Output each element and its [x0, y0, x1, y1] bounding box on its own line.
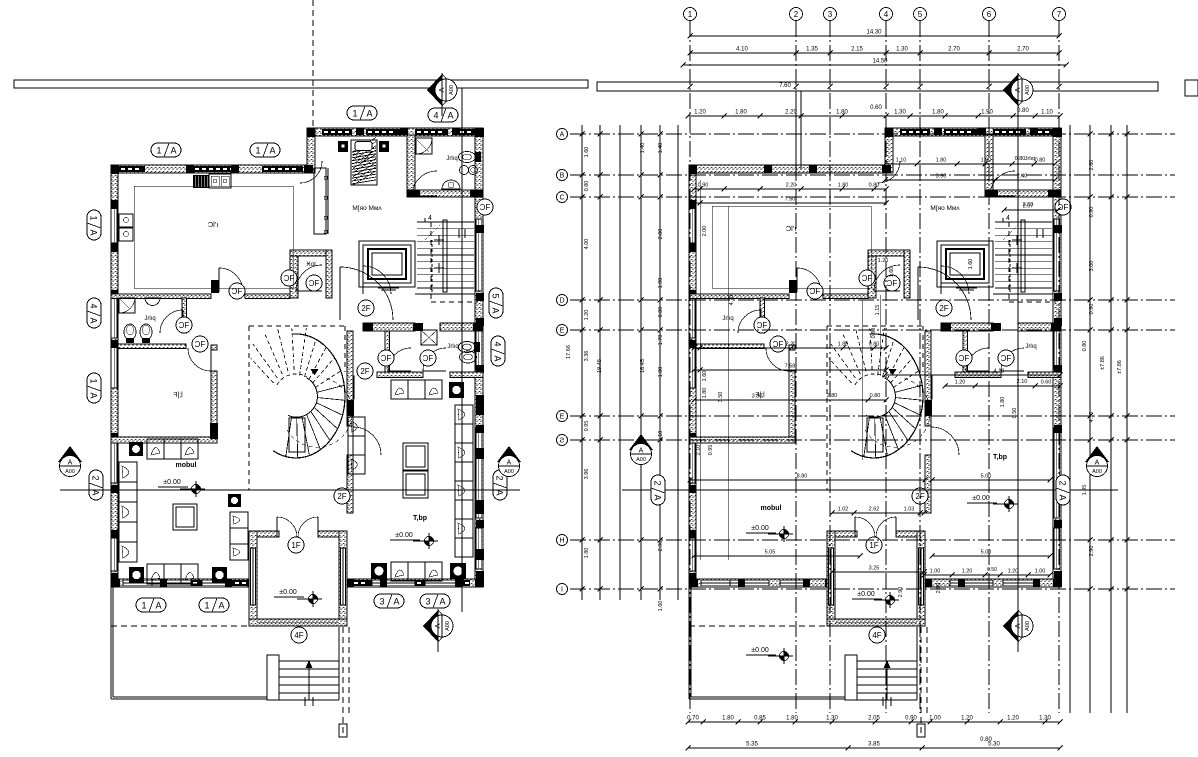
svg-text:Jrlıq: Jrlıq: [1025, 344, 1036, 350]
staircase up arrow 4: [1003, 221, 1014, 223]
svg-text:1.60: 1.60: [658, 601, 664, 612]
svg-text:3.96: 3.96: [584, 469, 590, 480]
svg-text:1: 1: [255, 145, 260, 155]
svg-text:Ӿol: Ӿol: [306, 261, 316, 268]
bath lower-left wc pair: [124, 324, 136, 340]
door lower-left bath: [160, 310, 183, 333]
site boundary bar left: [14, 80, 588, 88]
svg-text:4.10: 4.10: [1089, 412, 1095, 423]
svg-text:1: 1: [204, 600, 209, 610]
svg-text:4F: 4F: [294, 631, 303, 640]
exterior left wall: [111, 165, 118, 586]
terrace dashed drop line: [920, 627, 922, 737]
grid row E: [570, 415, 1175, 417]
svg-text:7: 7: [1057, 10, 1062, 19]
exterior wall top-right block: [311, 128, 482, 136]
svg-text:A: A: [218, 600, 224, 610]
door mid bath 2: [423, 348, 446, 371]
svg-text:mobul: mobul: [761, 505, 782, 512]
svg-text:1: 1: [352, 108, 357, 118]
svg-text:1.80: 1.80: [838, 342, 849, 348]
section line horizontal right plan: [622, 489, 1118, 491]
svg-text:5.05: 5.05: [765, 550, 776, 556]
svg-text:A: A: [393, 596, 399, 606]
svg-text:1.30: 1.30: [826, 716, 838, 722]
svg-text:1.10: 1.10: [896, 158, 907, 164]
svg-text:A: A: [493, 355, 503, 361]
door top-right bath: [412, 171, 437, 196]
svg-text:A: A: [447, 110, 453, 120]
svg-text:0.70: 0.70: [687, 716, 699, 722]
svg-text:2.20: 2.20: [786, 183, 797, 189]
svg-text:Jrlıq: Jrlıq: [446, 156, 457, 162]
svg-text:2.70: 2.70: [948, 47, 960, 53]
svg-text:ƆF: ƆF: [195, 340, 206, 349]
porch wall right: [339, 531, 347, 626]
svg-text:1.40: 1.40: [640, 143, 646, 154]
svg-text:H: H: [559, 538, 564, 545]
svg-text:5.35: 5.35: [746, 742, 758, 748]
svg-text:A: A: [560, 132, 565, 139]
svg-text:0.80: 0.80: [1082, 341, 1088, 352]
svg-text:2.60: 2.60: [1023, 202, 1034, 208]
living room sofa right column: [230, 512, 248, 560]
svg-text:1.80: 1.80: [722, 716, 734, 722]
svg-text:2: 2: [794, 10, 799, 19]
porch window: [855, 620, 896, 625]
grid line 4: [885, 21, 887, 713]
svg-text:±7.86: ±7.86: [1100, 356, 1106, 370]
svg-text:ƆF: ƆF: [757, 321, 768, 330]
top dimension segments: [690, 52, 1059, 54]
porch bottom wall with window: [827, 619, 925, 626]
section marker bottom left plan: [423, 610, 438, 642]
svg-text:±0.00: ±0.00: [395, 532, 413, 539]
door mid bath 1: [388, 348, 411, 371]
outside stair up arrow: [886, 662, 888, 700]
section marker bottom right plan: [1003, 610, 1018, 642]
svg-text:5: 5: [491, 293, 501, 298]
interior wall hall / guest room vertical: [925, 331, 931, 426]
master bed: [351, 140, 377, 185]
svg-text:0.90: 0.90: [698, 183, 709, 189]
straight staircase rail: [443, 220, 447, 292]
svg-text:1.30: 1.30: [1039, 716, 1051, 722]
svg-text:1.00: 1.00: [930, 569, 941, 575]
section line horizontal: [60, 489, 520, 491]
svg-text:1.10: 1.10: [1041, 110, 1053, 116]
svg-text:1.40: 1.40: [658, 143, 664, 154]
grid row H: [570, 539, 1175, 541]
grid circles rows A-I: [557, 129, 568, 140]
terrace bottom edge: [689, 698, 845, 700]
section marker west left plan: [58, 446, 82, 462]
svg-text:1.00: 1.00: [1035, 569, 1046, 575]
porch wall left: [249, 531, 257, 626]
svg-text:0.80: 0.80: [1015, 156, 1026, 162]
svg-text:A: A: [491, 307, 501, 313]
svg-text:A: A: [89, 392, 99, 398]
svg-text:4.10: 4.10: [736, 47, 748, 53]
door kitchen to hall: [789, 280, 797, 293]
bar crossing ticks: [688, 84, 693, 89]
svg-text:A: A: [155, 600, 161, 610]
svg-text:2F: 2F: [360, 367, 369, 376]
svg-text:0.80: 0.80: [869, 183, 880, 189]
svg-text:Jrlıq: Jrlıq: [1025, 156, 1035, 162]
svg-text:2.60: 2.60: [1089, 160, 1095, 171]
guest room chairs pair: [403, 443, 428, 470]
svg-text:1.60: 1.60: [968, 259, 974, 270]
windows right wall: [1054, 219, 1060, 291]
svg-text:0.80: 0.80: [584, 181, 590, 192]
staircase break line: [425, 225, 440, 240]
svg-text:1.70: 1.70: [658, 335, 664, 346]
svg-text:0.90: 0.90: [1089, 207, 1095, 218]
svg-text:A: A: [89, 229, 99, 235]
svg-text:A00: A00: [445, 621, 451, 631]
svg-text:3.36: 3.36: [584, 351, 590, 362]
svg-text:0.95: 0.95: [584, 421, 590, 432]
svg-text:A: A: [89, 317, 99, 323]
door Kol closet: [296, 265, 322, 291]
living room sofa left column: [119, 462, 137, 562]
svg-text:A: A: [366, 108, 372, 118]
svg-text:0.60: 0.60: [870, 105, 882, 111]
svg-text:16.45: 16.45: [640, 359, 646, 373]
svg-text:1.30: 1.30: [896, 47, 908, 53]
left margin dimension chains: [581, 125, 583, 600]
door bedroom2: [766, 348, 789, 371]
svg-text:3.85: 3.85: [868, 742, 880, 748]
svg-text:±0.00: ±0.00: [279, 589, 297, 596]
windows left wall: [689, 208, 695, 243]
grid circles columns 1-7: [684, 8, 697, 21]
svg-text:ƆF: ƆF: [887, 279, 898, 288]
terrace left edge: [110, 587, 112, 699]
svg-text:2.90: 2.90: [1089, 546, 1095, 557]
straight staircase rail: [1021, 220, 1025, 292]
spiral stair first step: [867, 418, 883, 452]
porch side stubs: [257, 531, 279, 537]
door hall upper: [340, 267, 393, 320]
svg-text:E: E: [560, 414, 565, 421]
bath top-right shower: [416, 138, 432, 154]
svg-text:0.90: 0.90: [905, 716, 917, 722]
svg-text:1.20: 1.20: [584, 310, 590, 321]
svg-text:3.00: 3.00: [1089, 261, 1095, 272]
exterior right wall: [1053, 128, 1061, 586]
svg-text:2.70: 2.70: [1017, 47, 1029, 53]
svg-text:1.80: 1.80: [786, 716, 798, 722]
svg-text:2.90: 2.90: [898, 587, 904, 598]
svg-text:A: A: [437, 87, 446, 92]
wall columns (black): [111, 165, 119, 174]
svg-text:2.10: 2.10: [696, 445, 702, 456]
outside stair steps: [267, 655, 279, 700]
terrace dashed edge: [111, 625, 249, 627]
svg-text:4: 4: [89, 303, 99, 308]
grid line 1: [689, 21, 691, 713]
svg-text:0.80: 0.80: [871, 328, 877, 339]
dashed property line above left plan: [312, 0, 314, 128]
porch side windows: [829, 548, 834, 605]
svg-text:1.00: 1.00: [929, 716, 941, 722]
staircase break line: [1003, 225, 1018, 240]
spiral staircase: [273, 334, 345, 458]
svg-text:3.50: 3.50: [718, 392, 724, 403]
svg-text:2: 2: [653, 480, 663, 485]
door lower-left bath: [738, 310, 761, 333]
windows right wall: [476, 219, 482, 291]
right wall black bars guest: [476, 395, 484, 415]
porch window: [277, 620, 318, 625]
section marker top right plan: [1003, 74, 1018, 106]
door bedroom M: [941, 266, 969, 294]
svg-text:5: 5: [918, 10, 923, 19]
svg-text:1: 1: [89, 378, 99, 383]
porch bottom wall with window: [249, 619, 347, 626]
svg-text:2F: 2F: [939, 304, 948, 313]
wall columns (black): [689, 165, 697, 174]
living room table: [173, 504, 197, 530]
svg-text:1.20: 1.20: [1008, 569, 1019, 575]
interior dims lower-left block: [694, 399, 886, 401]
spiral stair dashed enclosure: [249, 325, 345, 327]
bedroom2 wall end chunk: [210, 423, 218, 439]
svg-text:2: 2: [495, 475, 505, 480]
svg-text:1.60: 1.60: [702, 371, 708, 382]
tag ovals top of left plan: [151, 143, 181, 157]
svg-text:19.45: 19.45: [597, 359, 603, 373]
grid line 5: [919, 21, 921, 713]
living room dark seat 2: [212, 567, 227, 583]
interior wall bedroom2 right vertical: [211, 345, 217, 350]
terrace bottom edge: [111, 698, 267, 700]
svg-text:2.10: 2.10: [658, 431, 664, 442]
svg-text:5.00: 5.00: [981, 474, 992, 480]
exterior right wall: [475, 128, 483, 586]
site boundary bar right: [597, 82, 1158, 91]
wall between blocks vertical: [885, 128, 893, 173]
interior wall mid-right horizontal: [363, 323, 415, 331]
section marker east right plan: [1085, 446, 1109, 462]
svg-text:0.50: 0.50: [987, 567, 997, 573]
interior dims right rooms: [885, 374, 1060, 376]
top dimension total 14.50: [683, 64, 1066, 66]
svg-text:T,bp: T,bp: [993, 454, 1007, 461]
svg-text:1.80: 1.80: [702, 388, 708, 399]
porch wall left: [827, 531, 835, 626]
grid row B: [570, 174, 1175, 176]
svg-text:T,bp: T,bp: [413, 515, 427, 522]
wardrobe hall rects: [314, 168, 326, 234]
porch inner door tag: [288, 537, 304, 553]
door guest room: [931, 427, 959, 455]
window lintel bars top-right wall: [322, 129, 352, 135]
stair landing dashes: [1008, 222, 1010, 302]
svg-text:A: A: [1013, 87, 1022, 92]
grid row C: [570, 196, 1175, 198]
exterior bottom wall left part: [111, 579, 254, 587]
svg-text:ᖷ|;l: ᖷ|;l: [173, 391, 183, 399]
bath top-right bidet: [460, 166, 469, 175]
svg-text:1.80: 1.80: [932, 110, 944, 116]
svg-text:2.90: 2.90: [936, 583, 942, 594]
svg-text:A: A: [1058, 494, 1068, 500]
grid row E: [570, 329, 1175, 331]
svg-text:0.80: 0.80: [870, 393, 881, 399]
svg-text:0.80: 0.80: [1017, 108, 1029, 114]
living room bottom sofa: [147, 564, 198, 584]
svg-text:A: A: [433, 623, 442, 628]
svg-text:7.50: 7.50: [785, 197, 796, 203]
svg-text:3.90: 3.90: [936, 174, 947, 180]
svg-text:1.80: 1.80: [584, 548, 590, 559]
vent symbol | |: [1036, 229, 1038, 238]
svg-text:A: A: [653, 494, 663, 500]
interior wall mid bath left vertical: [963, 331, 968, 373]
svg-text:2.20: 2.20: [786, 342, 797, 348]
elevator shaft U1: [359, 241, 415, 287]
living room armchair: [228, 494, 241, 507]
wall between blocks vertical: [307, 128, 315, 173]
svg-text:A00: A00: [449, 85, 455, 95]
section line A-A vertical left plan: [461, 88, 463, 612]
bath lower-left basin: [145, 298, 160, 306]
svg-text:ƆF: ƆF: [309, 279, 320, 288]
svg-text:B: B: [560, 173, 565, 180]
svg-text:2.62: 2.62: [869, 507, 880, 513]
svg-text:Ɔl'ı: Ɔl'ı: [208, 220, 219, 229]
porch entry double door: [855, 517, 875, 537]
svg-text:3.25: 3.25: [869, 566, 880, 572]
svg-text:2F: 2F: [361, 304, 370, 313]
door bedroom2: [188, 348, 211, 371]
interior dims mid row: [694, 347, 886, 349]
door kitchen to hall: [211, 280, 219, 293]
svg-text:1.90: 1.90: [658, 278, 664, 289]
straight staircase treads: [995, 221, 1052, 223]
spiral stair walk line with arrow: [865, 379, 930, 448]
svg-text:1.20: 1.20: [955, 380, 966, 386]
grid line 6: [988, 21, 990, 713]
svg-text:C: C: [559, 195, 564, 202]
section line A-A vertical right plan: [1017, 91, 1019, 612]
svg-text:0.85: 0.85: [754, 716, 766, 722]
svg-text:I: I: [561, 587, 563, 594]
interior wall bath bottom top-right: [985, 190, 1061, 197]
svg-text:1.20: 1.20: [1007, 716, 1019, 722]
svg-text:mobul: mobul: [176, 462, 197, 469]
bottom dimension row 2: [688, 747, 1060, 749]
living room dark seat left: [129, 567, 144, 583]
door Kol closet: [874, 265, 900, 291]
svg-text:0.90: 0.90: [1089, 304, 1095, 315]
grid row D: [570, 299, 1175, 301]
kitchen counter with sink: [193, 175, 209, 188]
guest room sofa right column: [455, 405, 473, 557]
door mid bath 2: [1001, 348, 1024, 371]
elevator base: [956, 287, 977, 289]
svg-text:0.80: 0.80: [980, 737, 992, 743]
guest room top sofa: [391, 380, 442, 399]
svg-text:2.05: 2.05: [868, 716, 880, 722]
svg-text:4: 4: [493, 341, 503, 346]
interior vertical chain lines right plan: [699, 180, 701, 560]
bath mid-right shower: [421, 330, 437, 345]
elevator shaft U1: [937, 241, 993, 287]
interior dims guest room: [690, 479, 925, 481]
svg-text:1F: 1F: [291, 541, 300, 550]
svg-text:D: D: [559, 298, 564, 305]
grid line 7: [1058, 21, 1060, 713]
interior wall kitchen bottom: [689, 294, 789, 299]
svg-text:0.50: 0.50: [1012, 408, 1018, 419]
svg-text:A: A: [1095, 460, 1100, 467]
grid row Ƨ: [570, 439, 1175, 441]
door mid bath 1: [966, 348, 989, 371]
svg-text:1: 1: [688, 10, 693, 19]
door bedroom corridor arc: [878, 161, 900, 183]
svg-text:ƆF: ƆF: [959, 354, 970, 363]
svg-text:1.35: 1.35: [806, 47, 818, 53]
porch side stubs: [835, 531, 857, 537]
svg-text:0.60: 0.60: [1041, 380, 1052, 386]
svg-text:17.66: 17.66: [566, 345, 572, 359]
site bar right end block: [1185, 80, 1198, 96]
elevator base: [378, 287, 399, 289]
svg-text:±0.00: ±0.00: [163, 479, 181, 486]
svg-text:0.80: 0.80: [658, 307, 664, 318]
top dimension row under bar: [688, 115, 1060, 117]
svg-text:1: 1: [141, 600, 146, 610]
windows bottom wall: [123, 580, 152, 586]
hall sofa strip: [348, 417, 365, 474]
svg-text:1.03: 1.03: [904, 507, 915, 513]
porch window bars: [257, 620, 277, 625]
windows bottom wall: [701, 580, 730, 586]
kitchen appliances left: [119, 214, 133, 227]
interior wall under stairs: [415, 293, 475, 295]
svg-text:1.20: 1.20: [878, 258, 889, 264]
bath lower-left shower corner: [119, 298, 135, 313]
straight staircase treads: [417, 221, 474, 223]
exterior bottom wall left part: [689, 579, 832, 587]
svg-text:Jrlıq: Jrlıq: [144, 316, 155, 322]
guest room bottom row: [371, 563, 387, 579]
svg-text:7.58: 7.58: [785, 364, 796, 370]
terrace dashed drop line: [342, 627, 344, 737]
kitchen room finish line: [134, 186, 293, 288]
svg-text:Ƨ: Ƨ: [560, 438, 565, 445]
door bedroom M: [363, 266, 391, 294]
porch entry double door: [277, 517, 297, 537]
outside stair steps: [845, 655, 857, 700]
window lintel bars top-left wall: [119, 166, 145, 172]
svg-text:1.80: 1.80: [838, 183, 849, 189]
interior wall hall / guest room vertical: [347, 331, 353, 426]
svg-text:ƆF: ƆF: [773, 340, 784, 349]
door hall upper: [918, 267, 971, 320]
svg-text:1.80: 1.80: [735, 110, 747, 116]
interior dims kitchen: [694, 188, 886, 190]
tag ovals right side of left plan: [489, 288, 503, 318]
svg-text:±0.00: ±0.00: [751, 525, 769, 532]
porch inner door tag: [866, 537, 882, 553]
svg-text:E: E: [560, 328, 565, 335]
svg-text:4F: 4F: [872, 631, 881, 640]
